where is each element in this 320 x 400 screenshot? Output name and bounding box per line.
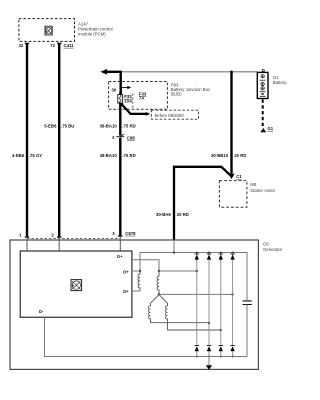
diode column 2 <box>207 252 211 358</box>
svg-text:32: 32 <box>19 43 24 48</box>
ground G1 <box>260 126 273 132</box>
label P93 Battery Junction Box (BJB) <box>171 83 211 97</box>
svg-text:.75 RD: .75 RD <box>122 153 135 158</box>
svg-text:C88: C88 <box>127 135 135 140</box>
svg-text:10A: 10A <box>124 98 132 103</box>
stator winding phase C <box>159 294 222 331</box>
wire 5-EB6 .75 BU (PCM pin 72 to generator pin 2) <box>44 43 74 236</box>
svg-text:20 RD: 20 RD <box>177 212 189 217</box>
svg-text:D+: D+ <box>117 254 123 259</box>
svg-text:Generator: Generator <box>263 247 283 252</box>
svg-text:C878: C878 <box>125 231 136 236</box>
starter motor M8 dashed box <box>219 181 276 208</box>
svg-text:D-: D- <box>39 309 44 314</box>
inline connector C88 pin 3 <box>112 134 135 140</box>
svg-text:30-BB10: 30-BB10 <box>211 153 229 158</box>
regulator box <box>20 251 132 317</box>
svg-text:M8: M8 <box>250 182 257 187</box>
wire 38-BA10 .75 RD upper <box>100 103 136 136</box>
svg-text:.75 BU: .75 BU <box>61 123 74 128</box>
svg-text:38-BA10: 38-BA10 <box>100 123 118 128</box>
D+ tap wire to phase 1 <box>132 260 198 272</box>
off-page bold arrow <box>100 69 120 93</box>
terminal 30 branch arrow <box>112 86 132 93</box>
diode column 4 <box>230 252 234 358</box>
wire 30-BB10 20 RD battery feed <box>211 71 246 174</box>
svg-text:7A: 7A <box>139 96 145 101</box>
dashed box before 08/2000 <box>152 110 199 119</box>
battery positive rail wire <box>121 71 258 73</box>
label O1 Battery <box>273 75 287 85</box>
svg-text:Starter motor: Starter motor <box>250 188 276 193</box>
svg-text:5-EB6: 5-EB6 <box>44 123 57 128</box>
fuse box P93 BJB dashed box <box>109 82 168 110</box>
PCM internal module icon <box>45 26 52 35</box>
pin 72 <box>50 43 61 48</box>
svg-text:30: 30 <box>112 87 117 92</box>
diode column 3 <box>219 252 223 358</box>
connector C878 row <box>19 231 136 239</box>
pin 1 lead into regulator <box>26 239 28 251</box>
capacitor C <box>243 301 252 357</box>
connector C1 arrow into starter <box>228 174 242 179</box>
module A147 PCM dashed box <box>19 19 75 42</box>
fuse F33 10A <box>118 94 133 104</box>
pin 32 <box>19 43 30 48</box>
D- return wire and bottom rail <box>45 317 248 356</box>
svg-text:.75 RD: .75 RD <box>122 123 135 128</box>
battery O1 <box>257 70 268 99</box>
svg-text:72: 72 <box>50 43 55 48</box>
svg-text:D+: D+ <box>123 289 129 294</box>
svg-text:C1: C1 <box>236 174 242 179</box>
generator O6 outer box <box>10 240 258 369</box>
stator winding phase A <box>157 271 160 296</box>
svg-text:20 RD: 20 RD <box>234 153 246 158</box>
wire 38-BA10 .75 RD lower <box>100 138 136 237</box>
svg-text:module (PCM): module (PCM) <box>78 31 106 36</box>
svg-text:C411: C411 <box>64 43 75 48</box>
case ground drop <box>206 357 212 370</box>
svg-text:4-EB6: 4-EB6 <box>12 153 25 158</box>
bold arrow to before 08/2000 variant <box>121 103 150 116</box>
node at feed junction <box>173 251 175 253</box>
B+ top rail inside generator <box>140 253 247 301</box>
svg-text:.75 GY: .75 GY <box>29 153 43 158</box>
wire 30-BA6 20 RD generator feed <box>156 167 230 240</box>
dashed divider inside BJB <box>132 94 134 109</box>
battery negative dashed lead <box>262 100 264 128</box>
junction node at fuse top <box>119 92 122 95</box>
stator winding phase B <box>149 294 211 324</box>
pin 2 lead into regulator <box>58 239 60 251</box>
feed drop inside generator <box>173 240 175 253</box>
star point wire to column 4 <box>159 293 233 295</box>
wire 4-EB6 .75 GY (PCM pin 32 to generator pin 1) <box>12 43 42 236</box>
label A147 Powertrain control module (PCM) <box>78 21 113 36</box>
svg-text:38-BA10: 38-BA10 <box>100 153 118 158</box>
diode column 1 <box>195 252 199 358</box>
field winding L1 <box>132 270 141 291</box>
regulator module icon <box>71 280 82 291</box>
alternate fuse label F33 7A <box>139 91 147 100</box>
pin 3 lead D+ into regulator <box>119 236 121 251</box>
svg-text:(BJB): (BJB) <box>171 91 182 96</box>
svg-text:D+: D+ <box>123 269 129 274</box>
svg-text:30-BA6: 30-BA6 <box>156 212 171 217</box>
svg-text:before 08/2000: before 08/2000 <box>155 113 185 118</box>
label O6 Generator <box>263 241 283 251</box>
svg-text:O6: O6 <box>263 241 269 246</box>
svg-text:G1: G1 <box>267 126 273 131</box>
svg-text:Battery: Battery <box>273 80 287 85</box>
